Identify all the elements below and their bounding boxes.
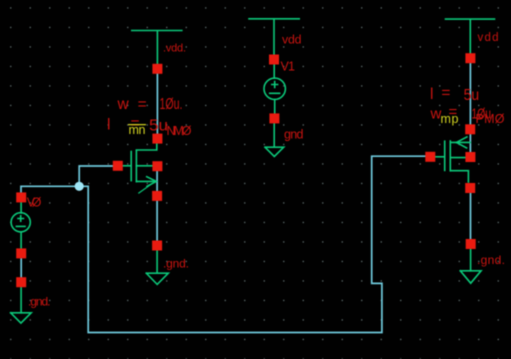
svg-text:.gnd.: .gnd. — [163, 257, 189, 271]
svg-text:vdd: vdd — [282, 33, 302, 47]
svg-text:=: = — [138, 96, 147, 113]
svg-text:1Øu.: 1Øu. — [160, 96, 183, 113]
svg-text:5u: 5u — [464, 87, 480, 104]
svg-text:VØ: VØ — [27, 196, 42, 210]
svg-text:.gnd.: .gnd. — [477, 253, 505, 267]
svg-text:mp: mp — [441, 112, 459, 126]
svg-text:vdd: vdd — [478, 32, 499, 44]
svg-text:.gnd.: .gnd. — [28, 295, 51, 309]
svg-text:=: = — [441, 85, 450, 102]
svg-text:l: l — [107, 117, 110, 134]
svg-text:PMØ: PMØ — [476, 112, 505, 126]
svg-text:w: w — [117, 96, 130, 113]
svg-text:.vdd.: .vdd. — [163, 43, 186, 55]
svg-text:gnd: gnd — [284, 128, 304, 142]
svg-text:NMØ: NMØ — [167, 124, 192, 138]
svg-text:l: l — [430, 86, 433, 103]
svg-text:V1: V1 — [281, 60, 296, 74]
svg-text:5u: 5u — [149, 118, 168, 135]
